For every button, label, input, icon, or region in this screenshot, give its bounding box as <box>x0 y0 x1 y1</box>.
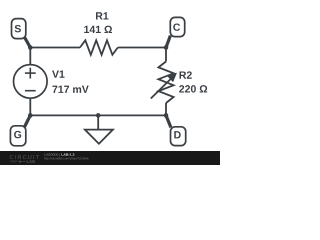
label R1 <box>96 12 108 19</box>
ground junction <box>96 113 101 118</box>
voltage source V1 <box>14 65 89 99</box>
node G flag <box>10 115 30 145</box>
label R2 <box>180 71 192 78</box>
resistor R1 <box>80 12 118 55</box>
resistor R2 (variable) <box>151 62 207 104</box>
value label 141 ohm <box>84 26 112 33</box>
node S flag <box>12 19 31 48</box>
watermark strip <box>0 151 220 165</box>
wire top-left horizontal <box>30 47 80 49</box>
node D junction <box>164 113 169 118</box>
ground <box>85 115 113 143</box>
node C junction <box>164 45 169 50</box>
node G junction <box>28 113 33 118</box>
wire right vertical upper <box>165 48 167 62</box>
wire left vertical lower <box>29 98 31 115</box>
node C flag <box>166 17 185 47</box>
wire left vertical upper <box>29 48 31 65</box>
node D flag <box>166 115 186 145</box>
wire bottom horizontal <box>30 114 166 116</box>
wire top-right horizontal <box>118 47 166 49</box>
value label 220 ohm <box>179 85 207 92</box>
label V1 <box>52 70 64 77</box>
wire right vertical lower <box>165 103 167 115</box>
node S junction <box>28 45 33 50</box>
value label 717 mV <box>52 86 88 93</box>
